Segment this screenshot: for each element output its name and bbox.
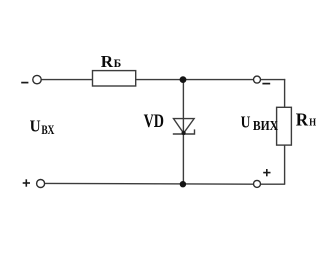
wire bottom from input terminal through node to output side — [45, 182, 254, 185]
svg-text:Н: Н — [309, 117, 316, 128]
svg-text:U: U — [241, 112, 251, 131]
resistor RН label — [296, 109, 316, 129]
zener diode VD cathode bar with bent end — [173, 129, 195, 134]
node label U_ВХ input voltage — [30, 117, 55, 137]
terminal input bottom (plus) — [37, 180, 45, 188]
svg-text:VD: VD — [144, 112, 164, 132]
terminal output top (minus) — [254, 76, 261, 83]
svg-text:R: R — [296, 109, 309, 129]
resistor RБ label — [101, 52, 122, 71]
node bottom junction dot — [180, 181, 186, 187]
svg-text:U: U — [30, 117, 41, 136]
svg-text:Б: Б — [114, 58, 122, 70]
resistor RБ body — [93, 71, 136, 86]
zener diode VD triangle — [174, 119, 195, 134]
wire top-left from input terminal to resistor RБ — [41, 79, 92, 81]
svg-text:ВХ: ВХ — [41, 123, 54, 137]
wire top-right from output terminal to corner — [260, 79, 285, 81]
wire right vertical lower segment from resistor RН to corner — [284, 145, 286, 184]
zener diode VD junction dot at apex — [182, 131, 186, 135]
polarity minus sign input top — [21, 82, 28, 84]
terminal output bottom (plus) — [254, 180, 261, 187]
node label U_ВИХ output voltage — [241, 112, 279, 133]
resistor RН body — [277, 107, 292, 145]
polarity plus sign input bottom — [23, 179, 30, 186]
wire bottom-right from corner to output terminal — [260, 183, 285, 185]
polarity plus sign output bottom — [263, 169, 270, 176]
polarity minus sign output top — [262, 83, 270, 85]
wire top-middle from resistor RБ through node to output terminal — [136, 79, 254, 81]
svg-text:R: R — [101, 52, 114, 71]
terminal input top (minus) — [33, 75, 41, 83]
wire middle vertical through diode VD — [182, 80, 184, 184]
wire right vertical upper segment to resistor RН — [284, 79, 286, 107]
svg-text:ВИХ: ВИХ — [253, 118, 278, 133]
node top junction dot — [180, 76, 187, 83]
